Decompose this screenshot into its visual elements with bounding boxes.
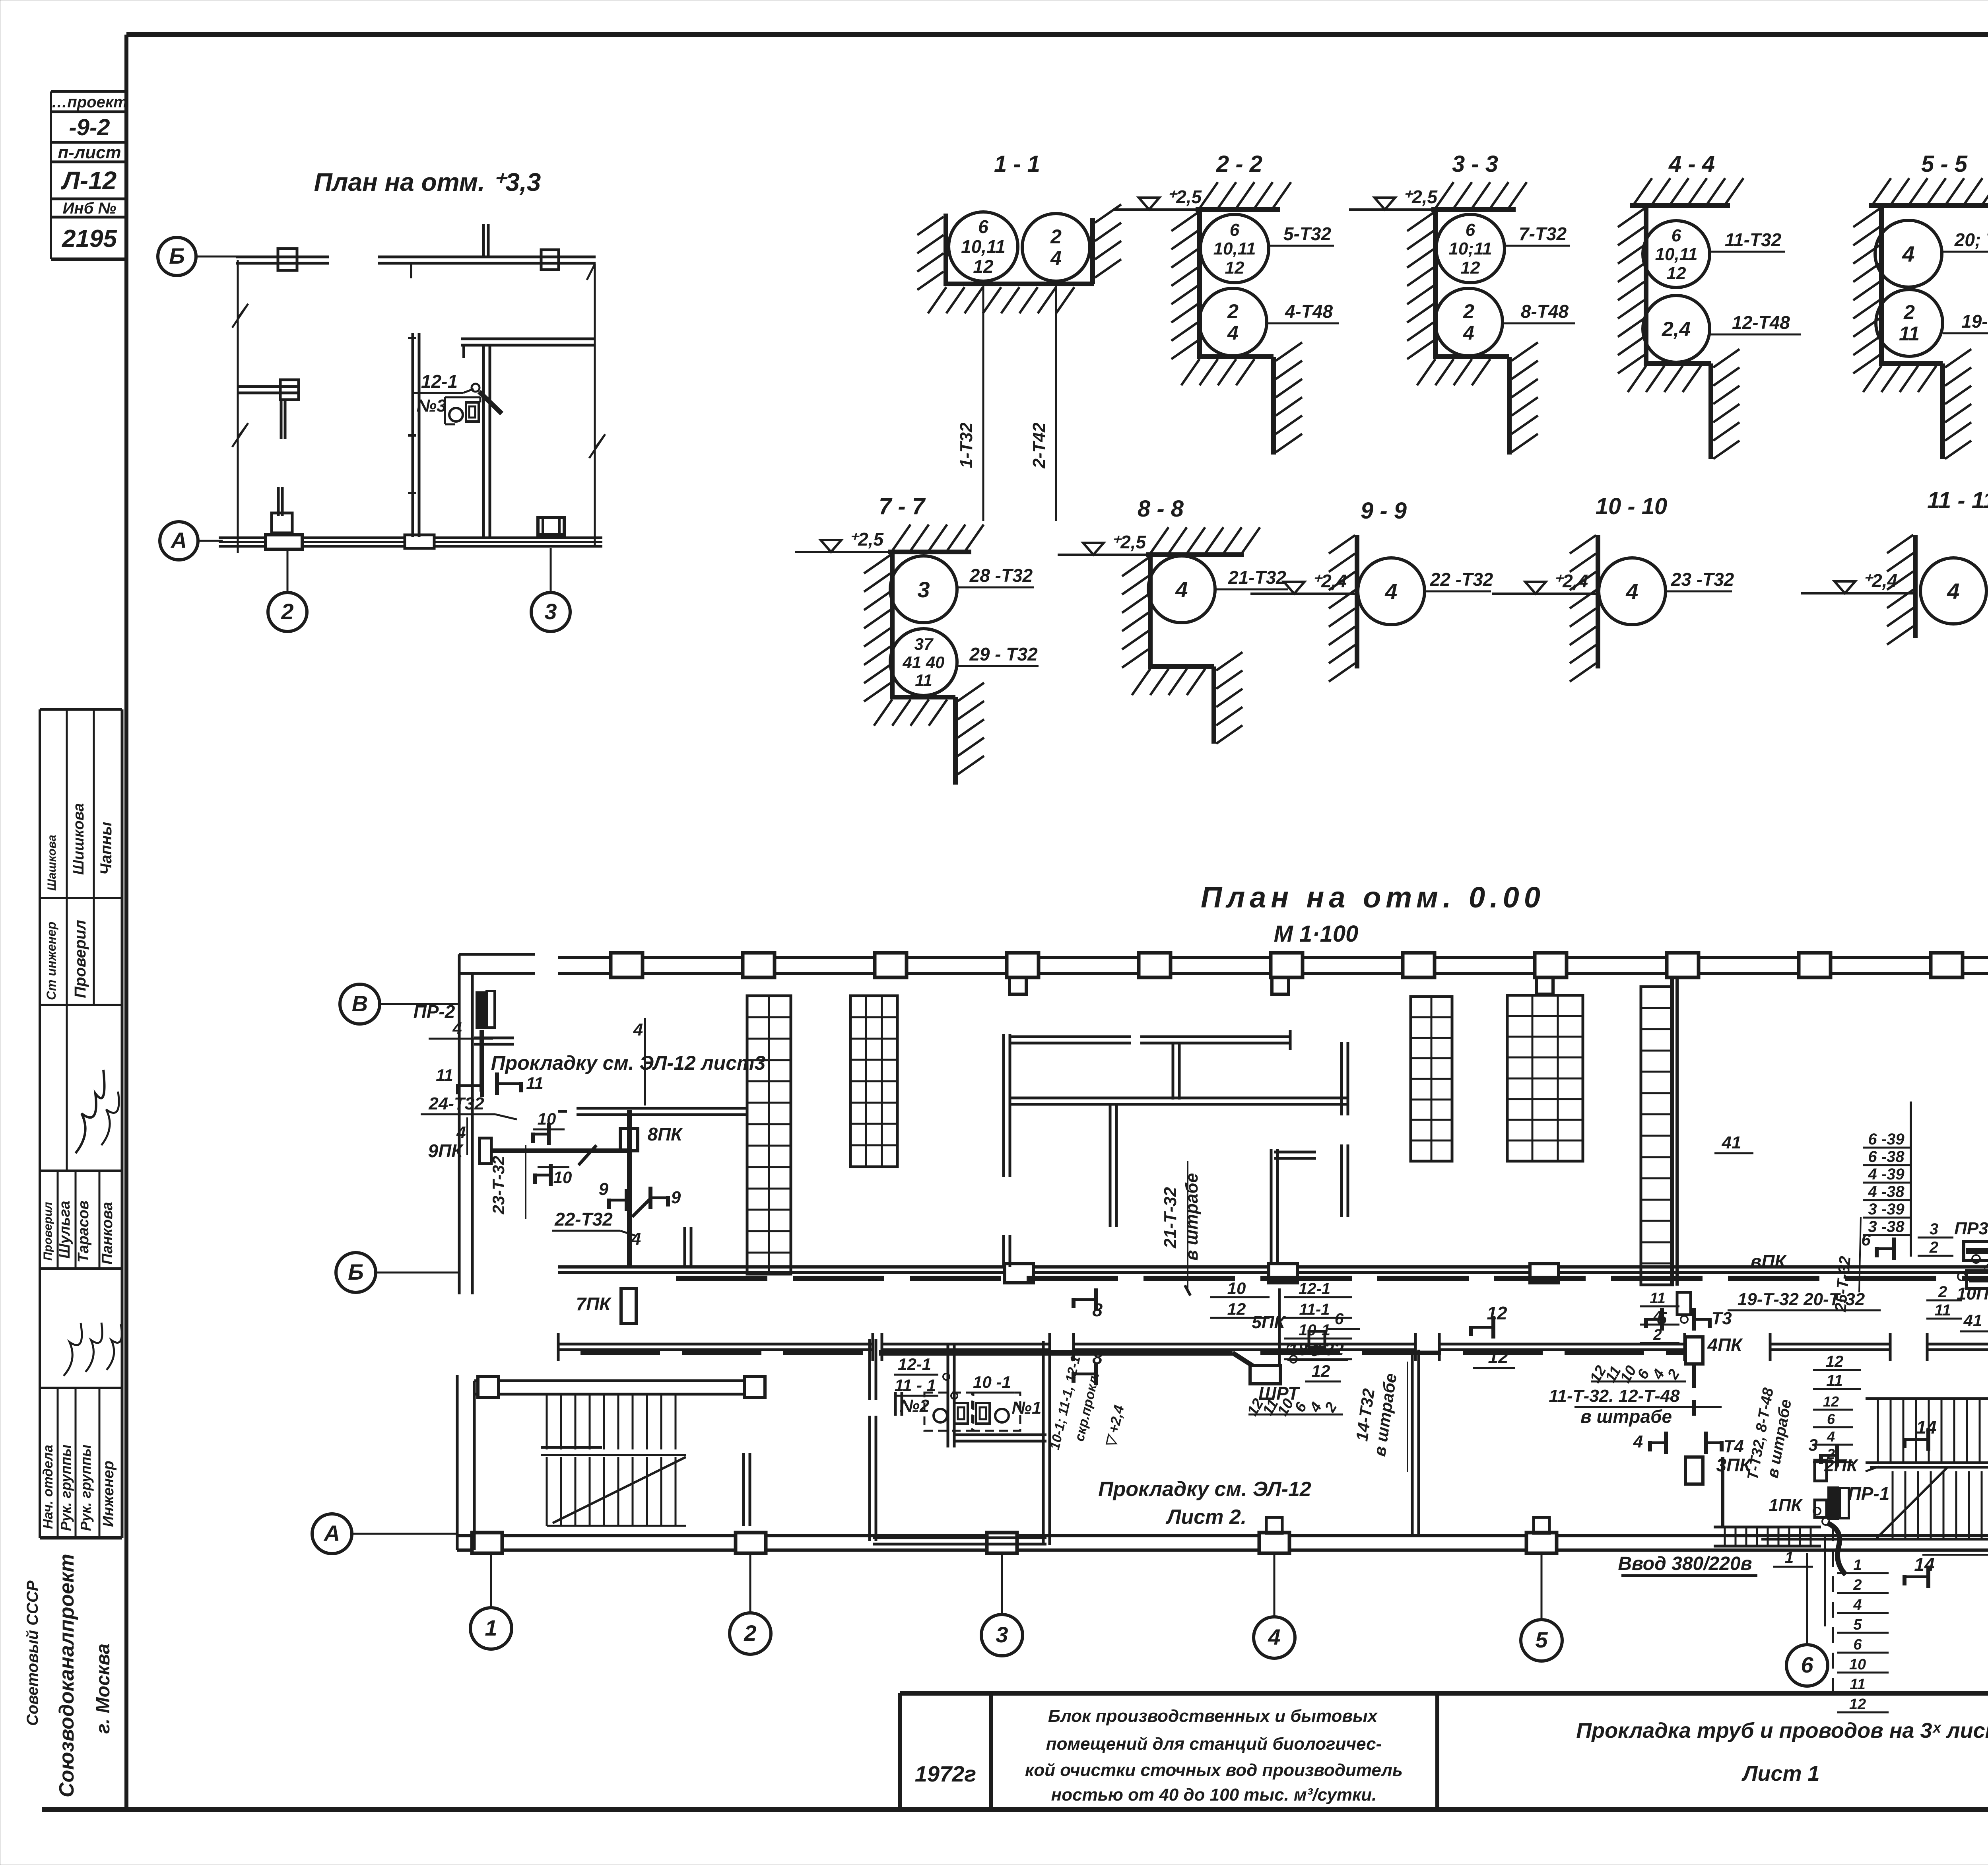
corridor upper wall: [558, 1264, 1988, 1283]
wall stub left corridor: [685, 1227, 691, 1267]
svg-text:Л-12: Л-12: [61, 166, 116, 195]
svg-text:6: 6: [1310, 1342, 1319, 1360]
svg-text:Союзводоканалпроект: Союзводоканалпроект: [55, 1554, 78, 1797]
riser 23-T-32: [489, 1145, 526, 1219]
svg-text:2: 2: [1853, 1577, 1862, 1593]
svg-text:4: 4: [1384, 579, 1397, 604]
section 2-2: [1113, 151, 1339, 455]
WC fixtures N1 N2: [894, 1355, 1041, 1431]
svg-text:Шашкова: Шашкова: [45, 835, 58, 891]
svg-text:11-Т32: 11-Т32: [1725, 229, 1782, 250]
svg-text:11: 11: [915, 671, 932, 690]
svg-text:9ПК: 9ПК: [428, 1140, 464, 1161]
section 9-9: [1250, 498, 1493, 682]
misc 41 label: [1714, 1133, 1753, 1153]
svg-text:22 -Т32: 22 -Т32: [1430, 569, 1493, 590]
svg-text:20; Т32: 20; Т32: [1954, 229, 1988, 250]
svg-text:п-лист: п-лист: [58, 143, 121, 162]
equipment rack 2: [850, 996, 897, 1167]
svg-text:21-Т32: 21-Т32: [1228, 567, 1286, 588]
svg-text:-9-2: -9-2: [69, 115, 110, 140]
svg-text:Шульга: Шульга: [56, 1201, 73, 1259]
svg-text:10;11: 10;11: [1448, 239, 1492, 258]
svg-text:4: 4: [1050, 247, 1062, 269]
svg-text:⁺2,5: ⁺2,5: [1167, 187, 1202, 207]
svg-text:6: 6: [1230, 220, 1240, 240]
svg-text:2-Т42: 2-Т42: [1029, 422, 1049, 468]
svg-text:6: 6: [1672, 226, 1681, 245]
svg-text:ностью от 40 до 100 тыс. м³/су: ностью от 40 до 100 тыс. м³/сутки.: [1051, 1785, 1377, 1805]
svg-text:помещений для станций биологич: помещений для станций биологичес-: [1046, 1734, 1382, 1754]
section cut marks 4: [456, 1018, 645, 1249]
svg-text:г. Москва: г. Москва: [93, 1644, 114, 1734]
svg-text:21-Т-32: 21-Т-32: [1161, 1187, 1180, 1249]
svg-text:4: 4: [456, 1123, 466, 1142]
svg-text:Лист 1: Лист 1: [1741, 1762, 1819, 1785]
svg-text:1ПК: 1ПК: [1769, 1496, 1803, 1515]
svg-text:5: 5: [1853, 1616, 1862, 1633]
svg-text:12-1: 12-1: [1299, 1280, 1330, 1298]
section 3-3: [1349, 151, 1575, 455]
svg-text:12: 12: [1225, 258, 1244, 278]
svg-text:6: 6: [1466, 220, 1475, 240]
svg-text:7-Т32: 7-Т32: [1519, 223, 1567, 244]
svg-text:10: 10: [1849, 1656, 1866, 1673]
svg-text:4: 4: [631, 1229, 641, 1249]
grid circle 2: [730, 1553, 771, 1654]
svg-text:2: 2: [1227, 300, 1239, 322]
svg-text:Прокладка труб и проводо: Прокладка труб и проводов на 3ˣ листах.: [1576, 1719, 1988, 1743]
svg-text:6: 6: [1853, 1636, 1862, 1653]
svg-text:4: 4: [452, 1019, 462, 1037]
svg-text:5 - 5: 5 - 5: [1921, 151, 1968, 177]
svg-text:Ввод 380/220в: Ввод 380/220в: [1618, 1553, 1752, 1574]
svg-text:в штрабе: в штрабе: [1580, 1406, 1672, 1427]
svg-text:12: 12: [1826, 1353, 1844, 1370]
section 5-5: [1853, 151, 1988, 459]
svg-text:19-Т32: 19-Т32: [1961, 311, 1988, 332]
svg-text:1 - 1: 1 - 1: [994, 151, 1040, 177]
svg-text:14: 14: [1916, 1417, 1936, 1438]
svg-text:4: 4: [1268, 1624, 1280, 1649]
corridor wiring bus: [676, 1276, 1988, 1281]
svg-text:4: 4: [1827, 1428, 1835, 1445]
Prokладку note top-left: [491, 1052, 766, 1074]
section 8-8: [1058, 496, 1288, 744]
svg-text:2: 2: [1929, 1239, 1938, 1256]
bottom exterior wall: [457, 1517, 1988, 1553]
4ПК 3ПК risers: [1549, 1308, 1752, 1484]
grid circle 3: [981, 1553, 1023, 1656]
svg-text:9 - 9: 9 - 9: [1361, 498, 1407, 524]
svg-text:2: 2: [1938, 1283, 1947, 1301]
svg-text:8-Т48: 8-Т48: [1521, 301, 1569, 322]
grid circle 3 (small plan): [531, 548, 570, 631]
svg-text:11: 11: [1650, 1290, 1665, 1307]
svg-text:2: 2: [1903, 301, 1915, 323]
lower wiring bus: [580, 1351, 1686, 1355]
svg-text:22-Т32: 22-Т32: [554, 1209, 613, 1230]
svg-text:12: 12: [1667, 264, 1686, 283]
svg-text:11: 11: [1934, 1302, 1951, 1319]
wiring 8ПК room: [552, 1108, 747, 1267]
А circle: [312, 1514, 457, 1554]
svg-text:6: 6: [1801, 1652, 1813, 1677]
svg-text:6: 6: [1335, 1310, 1344, 1328]
svg-text:А: А: [170, 528, 187, 553]
svg-text:11 - 1: 11 - 1: [895, 1376, 936, 1395]
wall and riser 14-T32: [1352, 1350, 1419, 1536]
svg-text:4: 4: [1227, 322, 1239, 344]
svg-text:2: 2: [1463, 300, 1474, 322]
svg-text:12: 12: [1823, 1393, 1839, 1410]
svg-text:2,4: 2,4: [1662, 318, 1691, 341]
svg-text:10-1: 10-1: [1299, 1321, 1330, 1339]
svg-text:2: 2: [744, 1620, 756, 1646]
svg-text:41: 41: [1963, 1311, 1982, 1330]
svg-text:3: 3: [917, 577, 930, 602]
top exterior wall with columns: [558, 953, 1988, 994]
section 11-11: [1801, 488, 1988, 645]
10ПК junction: [1918, 1220, 1988, 1348]
svg-text:11-1: 11-1: [1299, 1301, 1330, 1318]
svg-text:В: В: [352, 991, 368, 1016]
svg-text:4: 4: [1853, 1597, 1862, 1613]
svg-text:3: 3: [1930, 1220, 1938, 1238]
svg-text:Тарасов: Тарасов: [75, 1201, 92, 1263]
svg-text:8ПК: 8ПК: [648, 1124, 683, 1144]
svg-text:10,11: 10,11: [961, 236, 1006, 257]
svg-text:10 - 10: 10 - 10: [1596, 493, 1668, 519]
svg-text:10 -1: 10 -1: [973, 1373, 1011, 1391]
stair block axes 6-7: [1761, 1399, 1988, 1539]
svg-text:1: 1: [485, 1615, 497, 1640]
svg-text:3 -38: 3 -38: [1868, 1218, 1905, 1236]
svg-text:6 -39: 6 -39: [1868, 1131, 1905, 1148]
svg-text:4: 4: [1463, 322, 1474, 344]
svg-text:11: 11: [1899, 322, 1920, 345]
section 1-1: [917, 151, 1121, 521]
riser 21-T-32: [1161, 1161, 1202, 1296]
svg-text:6: 6: [1861, 1230, 1871, 1249]
svg-text:Блок производственных и бытовы: Блок производственных и бытовых: [1048, 1706, 1378, 1726]
svg-text:4: 4: [1947, 579, 1959, 604]
svg-text:4: 4: [1175, 577, 1188, 602]
Б circle: [336, 1253, 459, 1292]
svg-text:23 -Т32: 23 -Т32: [1671, 569, 1734, 590]
svg-text:⁺2,4: ⁺2,4: [1862, 570, 1897, 591]
svg-text:№1: №1: [1012, 1398, 1042, 1418]
svg-text:4: 4: [1625, 579, 1638, 604]
svg-text:23-Т-32: 23-Т-32: [489, 1156, 508, 1214]
svg-text:1-Т32: 1-Т32: [957, 422, 976, 468]
panel ПР-2: [414, 991, 495, 1092]
svg-text:1972г: 1972г: [915, 1761, 976, 1786]
svg-text:Панкова: Панкова: [99, 1202, 116, 1265]
grid circle Б (small plan): [158, 237, 238, 276]
signature stamp table: [40, 709, 122, 1538]
svg-text:3: 3: [544, 599, 557, 624]
svg-text:11 - 11: 11 - 11: [1927, 488, 1988, 513]
WC room walls axis 3: [870, 1339, 1050, 1545]
svg-text:4: 4: [633, 1020, 643, 1039]
svg-text:⁺2,5: ⁺2,5: [1111, 532, 1147, 552]
svg-text:4: 4: [1653, 1308, 1662, 1325]
svg-text:3 - 3: 3 - 3: [1452, 151, 1498, 177]
svg-text:⁺2,5: ⁺2,5: [1402, 187, 1438, 207]
svg-text:24-Т32: 24-Т32: [428, 1094, 484, 1113]
Ввод 380/220в: [1618, 1549, 1813, 1576]
organization name column: [24, 1554, 114, 1797]
svg-text:28 -Т32: 28 -Т32: [969, 565, 1033, 586]
svg-text:Рук. группы: Рук. группы: [58, 1444, 74, 1531]
stair block axes 1-2: [457, 1375, 765, 1550]
svg-text:9: 9: [671, 1188, 681, 1207]
svg-text:План на отм. ⁺3,3: План на отм. ⁺3,3: [314, 168, 541, 196]
grid circle А (small plan): [160, 522, 223, 560]
svg-text:⁺2,5: ⁺2,5: [848, 529, 884, 550]
riser 25-T-32: [1832, 1217, 1861, 1313]
section 4-4: [1618, 151, 1801, 459]
svg-text:41: 41: [1722, 1133, 1741, 1152]
flags 12: [1471, 1303, 1515, 1368]
svg-text:Ст инженер: Ст инженер: [44, 922, 58, 1000]
svg-text:3 -39: 3 -39: [1868, 1201, 1905, 1218]
svg-text:41 40: 41 40: [902, 653, 944, 672]
small plan walls: [219, 224, 605, 553]
svg-text:М 1·100: М 1·100: [1274, 921, 1359, 947]
cable ladder column: [1641, 976, 1677, 1286]
svg-text:29 - Т32: 29 - Т32: [969, 644, 1038, 664]
grid circle 2 (small plan): [268, 548, 307, 631]
svg-text:Шишкова: Шишкова: [70, 803, 87, 875]
svg-text:7 - 7: 7 - 7: [879, 493, 926, 519]
title block: [900, 1693, 1988, 1809]
svg-text:Чапны: Чапны: [97, 822, 115, 875]
svg-text:1: 1: [1853, 1557, 1862, 1574]
svg-text:4-Т48: 4-Т48: [1285, 301, 1333, 322]
svg-text:2: 2: [1050, 225, 1062, 248]
svg-text:11-Т-32. 12-Т-48: 11-Т-32. 12-Т-48: [1549, 1386, 1680, 1406]
svg-text:Лист 2.: Лист 2.: [1165, 1506, 1246, 1529]
riser tables at axis 6: [1813, 1353, 1861, 1462]
main plan title: [1201, 881, 1545, 947]
svg-text:11: 11: [436, 1066, 453, 1084]
grid circle 5: [1521, 1553, 1562, 1661]
svg-text:4 -39: 4 -39: [1868, 1166, 1905, 1183]
equipment rack 1: [747, 996, 791, 1274]
grid circle 6: [1786, 1553, 1828, 1686]
circuit table 6-39: [1861, 1102, 1912, 1260]
svg-text:9: 9: [599, 1179, 609, 1199]
flag 14 stair: [1905, 1417, 1937, 1451]
svg-text:37: 37: [914, 635, 934, 653]
svg-text:5: 5: [1535, 1627, 1548, 1652]
svg-text:10,11: 10,11: [1213, 239, 1256, 258]
slanted riser table B: [1587, 1363, 1686, 1386]
7ПК box: [576, 1288, 636, 1323]
svg-text:12: 12: [973, 256, 994, 277]
svg-text:Б: Б: [169, 243, 185, 268]
entrance porch steps: [1714, 1457, 1825, 1626]
small plan title: [314, 168, 541, 196]
svg-text:12-1: 12-1: [898, 1355, 931, 1374]
stairs room label: [1098, 1478, 1311, 1529]
panel ПР3: [1954, 1121, 1988, 1269]
section 7-7: [795, 493, 1039, 785]
svg-text:ПР-1: ПР-1: [1848, 1483, 1890, 1504]
svg-text:12-1: 12-1: [421, 371, 458, 392]
svg-text:4: 4: [1902, 241, 1914, 266]
svg-text:5ПК: 5ПК: [1252, 1313, 1286, 1332]
flag 14 bottom: [1905, 1554, 1935, 1588]
left exterior wall: [459, 954, 535, 1294]
riser list at введ: [1837, 1557, 1889, 1713]
equipment rack 3: [1411, 997, 1452, 1161]
svg-text:в штрабе: в штрабе: [1182, 1173, 1202, 1261]
concealed wiring note: [1047, 1354, 1127, 1451]
svg-text:1: 1: [1785, 1549, 1794, 1566]
svg-text:4 - 4: 4 - 4: [1668, 151, 1715, 177]
stamp boxes top-left (project nos): [51, 91, 128, 259]
ШРТ cable junction: [879, 1310, 1360, 1404]
svg-text:Советовый СССР: Советовый СССР: [24, 1580, 41, 1726]
svg-text:Прокладку см. ЭЛ-12 лист3: Прокладку см. ЭЛ-12 лист3: [491, 1052, 766, 1074]
slanted riser table A: [1244, 1396, 1343, 1419]
svg-text:Б: Б: [348, 1259, 364, 1284]
svg-text:Рук. группы: Рук. группы: [78, 1444, 94, 1531]
svg-text:ПР3: ПР3: [1954, 1219, 1988, 1238]
svg-text:4ПК: 4ПК: [1707, 1335, 1743, 1355]
svg-text:12: 12: [1487, 1303, 1507, 1323]
grid circle 4: [1254, 1553, 1295, 1658]
wiring 24-T32 / 9ПК: [421, 1066, 628, 1187]
svg-text:10: 10: [1227, 1279, 1246, 1298]
svg-text:2: 2: [281, 599, 293, 624]
svg-text:вПК: вПК: [1750, 1251, 1787, 1272]
svg-text:2: 2: [1827, 1446, 1835, 1462]
svg-text:19-Т-32 20-Т-32: 19-Т-32 20-Т-32: [1738, 1290, 1865, 1309]
right lower rooms: [1922, 1328, 1988, 1626]
svg-text:7ПК: 7ПК: [576, 1294, 612, 1314]
svg-text:5-Т32: 5-Т32: [1283, 223, 1332, 244]
svg-text:Т3: Т3: [1711, 1309, 1732, 1328]
В circle: [340, 984, 459, 1024]
svg-text:Проверил: Проверил: [41, 1202, 54, 1261]
svg-text:А: А: [323, 1521, 340, 1546]
svg-text:4 -38: 4 -38: [1868, 1183, 1905, 1201]
svg-text:12-Т48: 12-Т48: [1732, 312, 1790, 333]
svg-text:№3: №3: [417, 396, 447, 416]
svg-text:10: 10: [553, 1168, 572, 1187]
svg-text:6: 6: [1827, 1411, 1835, 1427]
svg-text:8 - 8: 8 - 8: [1138, 496, 1184, 522]
note 19-T-32 20-T-32: [1640, 1251, 1881, 1343]
svg-text:12: 12: [1488, 1346, 1508, 1367]
svg-text:Инженер: Инженер: [100, 1461, 117, 1527]
svg-text:12: 12: [1461, 258, 1480, 278]
svg-text:11: 11: [1850, 1676, 1865, 1693]
svg-text:12: 12: [1312, 1362, 1330, 1380]
section 10-10: [1492, 493, 1734, 682]
svg-text:14: 14: [1914, 1554, 1934, 1575]
flags 8: [1074, 1288, 1103, 1385]
svg-text:2: 2: [1653, 1327, 1662, 1343]
interior walls (upper rooms): [1004, 1030, 1348, 1267]
svg-text:4: 4: [1633, 1432, 1643, 1451]
svg-text:Инб №: Инб №: [63, 200, 116, 217]
svg-text:11: 11: [1826, 1372, 1843, 1389]
svg-text:План на отм. 0.00: План на отм. 0.00: [1201, 881, 1545, 914]
svg-text:12: 12: [1227, 1300, 1246, 1318]
circuit table 10/12: [1210, 1279, 1352, 1364]
svg-text:3: 3: [996, 1622, 1008, 1647]
small plan switch 12-1 and fixture N3: [414, 371, 502, 424]
svg-text:Проверил: Проверил: [72, 920, 89, 998]
svg-text:10,11: 10,11: [1655, 245, 1698, 264]
entrance panel ПР-1 cluster: [1744, 1386, 1889, 1702]
svg-text:кой очистки сточных вод произв: кой очистки сточных вод производитель: [1025, 1760, 1403, 1780]
svg-text:6 -38: 6 -38: [1868, 1148, 1905, 1166]
svg-text:Прокладку см. ЭЛ-12: Прокладку см. ЭЛ-12: [1098, 1478, 1311, 1501]
grid circle 1: [470, 1553, 512, 1649]
svg-text:12: 12: [1849, 1696, 1866, 1713]
corridor lower wall: [558, 1333, 1988, 1361]
svg-text:Т4: Т4: [1723, 1437, 1743, 1456]
equipment rack 4: [1507, 995, 1583, 1161]
svg-text:…проект: …проект: [51, 93, 127, 111]
svg-text:6: 6: [978, 216, 988, 237]
svg-text:Нач. отдела: Нач. отдела: [41, 1445, 56, 1529]
svg-text:11: 11: [526, 1074, 544, 1092]
svg-text:2195: 2195: [62, 225, 117, 253]
svg-text:2 - 2: 2 - 2: [1216, 151, 1262, 177]
